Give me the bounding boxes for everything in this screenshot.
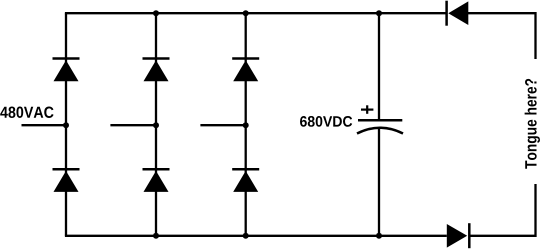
diode D3 leg2 upper [143,59,170,82]
diode D6 leg3 lower [232,169,259,192]
node bottom capacitor [376,233,382,239]
node mid leg2 [153,122,159,128]
wire phase B input stub [110,124,156,126]
diode D2 leg1 lower [53,169,80,192]
node top leg3 [243,10,249,16]
node bottom leg2 [153,233,159,239]
node top leg2 [153,10,159,16]
node top capacitor [376,10,382,16]
capacitor plus polarity mark [361,105,373,114]
wire bottom right to corner [469,184,535,236]
wire leg 3 vertical [245,13,247,236]
wire phase A input stub [22,124,67,126]
wire leg 1 vertical [65,13,67,236]
label 480VAC [0,107,53,118]
label 680VDC [300,116,352,127]
wire leg 2 vertical [155,13,157,236]
wire capacitor bottom lead [378,129,380,236]
node bottom leg3 [243,233,249,239]
wire top positive bus [65,12,447,14]
diode D7 top right [447,1,469,26]
node mid leg3 [243,122,249,128]
wire top right to corner [467,13,535,59]
wire bottom negative bus [65,235,447,237]
node mid leg1 [63,122,69,128]
capacitor C1 [357,120,403,133]
diode D4 leg2 lower [143,169,170,192]
wire phase C input stub [200,124,245,126]
wire capacitor top lead [378,13,380,119]
diode D1 leg1 upper [53,59,80,82]
diode D5 leg3 upper [232,59,259,82]
label Tongue here? [525,79,540,169]
diode D8 bottom right [447,223,470,248]
